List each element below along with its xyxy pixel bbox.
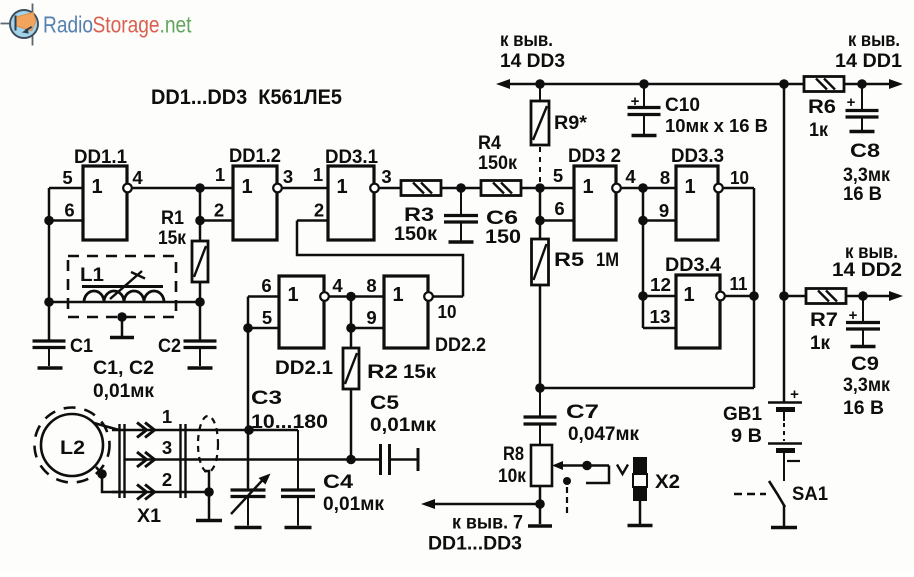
svg-text:12: 12 bbox=[650, 274, 671, 295]
svg-text:.net: .net bbox=[160, 12, 192, 38]
wire input column to coil node bbox=[247, 297, 250, 489]
svg-text:1: 1 bbox=[336, 176, 347, 198]
switch SA1 linkage bbox=[734, 493, 766, 495]
wire L2 bottom lead bbox=[96, 467, 102, 474]
node outputs join bbox=[749, 291, 759, 301]
bubble DD3.2 output bbox=[612, 184, 621, 193]
svg-text:150к: 150к bbox=[394, 223, 437, 245]
svg-text:16 В: 16 В bbox=[843, 397, 884, 419]
wire X2 bottom bbox=[639, 501, 642, 524]
capacitor C7 bbox=[539, 388, 541, 417]
wire pin2 DD3.1 bbox=[297, 219, 328, 222]
capacitor C6 bbox=[460, 188, 462, 216]
svg-text:R5: R5 bbox=[554, 249, 584, 271]
svg-text:R4: R4 bbox=[478, 132, 501, 154]
svg-text:10к: 10к bbox=[498, 465, 526, 487]
capacitor C8 bbox=[861, 84, 863, 111]
svg-text:C1, C2: C1, C2 bbox=[93, 357, 154, 379]
wire left column bbox=[48, 188, 51, 341]
svg-text:DD2.1: DD2.1 bbox=[275, 357, 333, 379]
svg-text:4: 4 bbox=[625, 166, 636, 187]
svg-text:4: 4 bbox=[132, 167, 143, 188]
svg-text:1: 1 bbox=[215, 164, 225, 185]
battery GB1 bbox=[768, 401, 802, 404]
wire pin6 DD1.1 bbox=[49, 219, 83, 222]
svg-text:10: 10 bbox=[730, 167, 749, 188]
wire L2 top lead bbox=[94, 423, 119, 430]
svg-text:Storage: Storage bbox=[93, 12, 160, 38]
wire L2 to row2 bbox=[102, 474, 125, 492]
svg-text:14 DD3: 14 DD3 bbox=[500, 51, 565, 72]
svg-text:2: 2 bbox=[214, 200, 224, 221]
inductor L1 adjust arrow bbox=[110, 271, 142, 299]
wire pin12 DD3.4 bbox=[643, 295, 676, 298]
jack break contact bbox=[617, 465, 628, 475]
wire DD1.2 out to DD3.1 in bbox=[282, 187, 328, 190]
svg-text:0,01мк: 0,01мк bbox=[370, 414, 436, 436]
node pin5 DD3.2 bbox=[535, 183, 545, 193]
svg-text:3: 3 bbox=[381, 166, 391, 187]
svg-text:DD3.4: DD3.4 bbox=[665, 254, 721, 276]
node L1 shield tap bbox=[117, 312, 127, 322]
wire row2 bbox=[112, 491, 209, 494]
wire feedback DD2.2 to DD3.1 pin2 bbox=[297, 221, 463, 297]
connector X1 left bbox=[118, 424, 120, 498]
svg-text:+: + bbox=[790, 386, 799, 403]
svg-text:150: 150 bbox=[485, 226, 521, 248]
wire R7 left bbox=[784, 295, 806, 298]
node pin12 bbox=[638, 291, 648, 301]
svg-text:9 В: 9 В bbox=[731, 425, 762, 447]
arrow to pin 14 DD3 bbox=[496, 79, 510, 89]
wire pin5-pin6 tie DD3.2 bbox=[539, 188, 542, 239]
wire pin2 DD1.2 bbox=[200, 219, 233, 222]
svg-text:C8: C8 bbox=[850, 140, 880, 162]
svg-text:SA1: SA1 bbox=[792, 483, 828, 505]
svg-text:C7: C7 bbox=[566, 401, 599, 423]
wire row3 bbox=[125, 458, 379, 461]
trimmer arrow C3 bbox=[231, 479, 264, 515]
bubble DD3.1 output bbox=[370, 184, 379, 193]
bubble DD2.2 output bbox=[424, 292, 433, 301]
node pin6 left bbox=[44, 216, 54, 226]
node DD1.1 output bbox=[195, 183, 205, 193]
node R8 bottom bbox=[535, 499, 545, 509]
wire pin5 DD2.1 bbox=[248, 327, 279, 330]
wire C2 lead bbox=[199, 302, 202, 341]
svg-text:R2: R2 bbox=[367, 361, 398, 383]
gate DD3.3 bbox=[676, 166, 718, 240]
resistor R7 bbox=[806, 289, 846, 304]
capacitor C4 bbox=[297, 430, 299, 490]
svg-text:X2: X2 bbox=[655, 471, 680, 493]
gate DD3.1 bbox=[328, 166, 374, 240]
resistor R4 bbox=[481, 181, 521, 196]
node pin6 DD3.2 bbox=[535, 216, 545, 226]
svg-text:10мк x 16 В: 10мк x 16 В bbox=[665, 116, 768, 136]
svg-text:1: 1 bbox=[392, 284, 403, 306]
svg-text:к выв.: к выв. bbox=[848, 30, 900, 51]
svg-text:DD1...DD3 К561ЛЕ5: DD1...DD3 К561ЛЕ5 bbox=[151, 86, 342, 109]
svg-text:1: 1 bbox=[287, 284, 298, 306]
node R7-C9 bbox=[858, 291, 868, 301]
svg-text:+: + bbox=[849, 307, 858, 324]
svg-text:15к: 15к bbox=[403, 361, 436, 383]
resistor R3 bbox=[401, 181, 441, 196]
inductor L1 core bbox=[82, 285, 163, 288]
svg-text:1: 1 bbox=[241, 176, 252, 198]
svg-text:R8: R8 bbox=[503, 443, 524, 465]
svg-text:1: 1 bbox=[162, 406, 172, 427]
wire R2 column upper bbox=[350, 297, 353, 349]
wire right output column bbox=[753, 188, 756, 388]
svg-text:3: 3 bbox=[162, 437, 172, 458]
contact arrows X1 pin1 bbox=[137, 423, 147, 438]
gate DD2.2 bbox=[384, 276, 428, 348]
wire DD3.3 out bbox=[723, 187, 754, 190]
node bus-R9 junction bbox=[535, 79, 545, 89]
svg-text:8: 8 bbox=[660, 167, 670, 188]
svg-text:1: 1 bbox=[683, 284, 694, 306]
svg-text:C2: C2 bbox=[158, 335, 181, 357]
switch SA1 bbox=[769, 481, 785, 507]
wire pin9 DD2.2 bbox=[351, 327, 384, 330]
svg-text:DD3.1: DD3.1 bbox=[325, 146, 378, 168]
wire pin9 DD3.3 bbox=[643, 219, 676, 222]
svg-text:10...180: 10...180 bbox=[251, 411, 328, 433]
node DD2.1 out bbox=[346, 292, 356, 302]
ground terminal SA1 bbox=[771, 526, 797, 530]
svg-text:DD2.2: DD2.2 bbox=[435, 334, 486, 356]
wire R8 bottom bbox=[539, 486, 542, 524]
node DD3.2 out bbox=[638, 183, 648, 193]
arrow to pin 14 DD2 bbox=[889, 291, 903, 301]
wire R3 to R4 bbox=[441, 187, 481, 190]
svg-text:C10: C10 bbox=[665, 94, 700, 116]
wire R4 to DD3.2 pin5 bbox=[521, 187, 574, 190]
shield L2 dashed bbox=[35, 408, 110, 483]
capacitor C10 bbox=[643, 84, 645, 108]
resistor R1 bbox=[192, 241, 208, 282]
svg-text:6: 6 bbox=[261, 275, 271, 296]
svg-text:0,01мк: 0,01мк bbox=[93, 380, 154, 402]
wiper arrow R8 bbox=[552, 461, 563, 470]
capacitor C3 trimmer bbox=[247, 430, 249, 490]
svg-text:L1: L1 bbox=[80, 264, 104, 286]
svg-text:1: 1 bbox=[582, 176, 593, 198]
node C6 tap bbox=[456, 183, 466, 193]
jack mech link bbox=[563, 477, 571, 485]
svg-text:Radio: Radio bbox=[43, 12, 93, 38]
node pin9 DD3.3 bbox=[638, 216, 648, 226]
svg-text:R9*: R9* bbox=[554, 112, 587, 134]
svg-text:3: 3 bbox=[283, 166, 293, 187]
node L1 left bbox=[44, 297, 54, 307]
svg-text:6: 6 bbox=[64, 200, 74, 221]
svg-text:1М: 1М bbox=[596, 249, 619, 271]
svg-text:к выв. 7: к выв. 7 bbox=[452, 513, 523, 534]
svg-text:15к: 15к bbox=[158, 227, 186, 249]
node C7 top bbox=[535, 383, 545, 393]
wire node down to R1 bbox=[199, 188, 202, 241]
svg-text:10: 10 bbox=[438, 301, 457, 322]
wire DD1.1 out to DD1.2 in bbox=[132, 187, 233, 190]
svg-text:1: 1 bbox=[684, 176, 695, 198]
wire battery column bbox=[783, 84, 786, 402]
inductor L2 search coil bbox=[41, 414, 103, 476]
node pin2 DD1.2 bbox=[195, 216, 205, 226]
ground terminal L1 tap bbox=[110, 336, 134, 340]
svg-text:+: + bbox=[631, 93, 640, 110]
svg-text:11: 11 bbox=[730, 273, 748, 294]
svg-text:9: 9 bbox=[366, 307, 376, 328]
power bus +9V wire bbox=[503, 83, 804, 86]
svg-text:C3: C3 bbox=[251, 387, 282, 409]
ground terminal R8 bbox=[528, 524, 552, 528]
svg-text:1к: 1к bbox=[810, 332, 830, 354]
wire SA1 bottom bbox=[783, 505, 786, 526]
svg-text:2: 2 bbox=[162, 469, 172, 490]
wire DD3.2 out to DD3.3 in bbox=[621, 187, 676, 190]
capacitor C1 bbox=[33, 339, 66, 342]
wire R1 bottom bbox=[199, 282, 202, 302]
svg-text:14 DD1: 14 DD1 bbox=[835, 51, 902, 72]
svg-text:DD1.1: DD1.1 bbox=[74, 146, 127, 168]
bubble DD3.3 output bbox=[714, 184, 723, 193]
contact arrows X1 pin3 bbox=[137, 452, 147, 467]
node row2 shield bbox=[204, 487, 214, 497]
svg-text:16 В: 16 В bbox=[843, 183, 882, 205]
gate DD3.4 bbox=[676, 275, 720, 348]
svg-text:1: 1 bbox=[313, 164, 323, 185]
svg-text:C9: C9 bbox=[851, 353, 879, 375]
svg-text:C4: C4 bbox=[323, 471, 353, 493]
ground terminal X2 bbox=[628, 524, 653, 528]
wire bottom signal bbox=[540, 387, 754, 390]
resistor R6 bbox=[804, 77, 844, 92]
wire DD2.2 out segment bbox=[433, 295, 463, 298]
wire DD2.1 out bbox=[329, 295, 384, 298]
inductor L1 screened bbox=[68, 256, 176, 317]
svg-text:0,01мк: 0,01мк bbox=[323, 493, 384, 515]
node bus-C10 junction bbox=[639, 79, 649, 89]
svg-text:8: 8 bbox=[366, 275, 376, 296]
svg-text:4: 4 bbox=[332, 275, 343, 296]
wire L1 tap bbox=[121, 317, 124, 336]
node wiper wire bbox=[582, 461, 592, 471]
capacitor C2 bbox=[184, 339, 217, 342]
connector X2 phone jack bbox=[633, 457, 647, 474]
cable shield ellipse bbox=[198, 416, 218, 472]
svg-text:1: 1 bbox=[91, 176, 102, 198]
svg-text:3,3мк: 3,3мк bbox=[843, 374, 890, 396]
svg-text:150к: 150к bbox=[478, 152, 517, 174]
svg-text:GB1: GB1 bbox=[723, 403, 762, 425]
wire R2 bottom bbox=[350, 389, 353, 460]
svg-text:X1: X1 bbox=[137, 505, 161, 527]
svg-text:L2: L2 bbox=[60, 437, 85, 459]
capacitor C9 bbox=[862, 296, 864, 323]
label GB1 minus bbox=[787, 460, 800, 462]
wire vertical DD3.2-out down bbox=[642, 188, 645, 328]
wire pin6 DD2.1 bbox=[248, 295, 279, 298]
site logo RadioStorage.net bbox=[1, 4, 192, 46]
capacitor C5 bbox=[379, 444, 382, 475]
wire row2 down bbox=[208, 492, 211, 519]
wire pin13 DD3.4 bbox=[643, 327, 676, 330]
gate DD1.2 bbox=[233, 166, 277, 240]
gate DD2.1 bbox=[279, 276, 324, 348]
gate DD1.1 (U: K561LE5 el.1) bbox=[83, 166, 127, 240]
inductor L1 winding bbox=[84, 291, 164, 302]
wire R7 right bbox=[846, 295, 899, 298]
svg-text:5: 5 bbox=[553, 165, 563, 186]
node pin9 DD2.2 bbox=[346, 323, 356, 333]
wire row1 bbox=[112, 429, 298, 432]
terminal C5 right bbox=[417, 448, 420, 471]
wire DD3.4 out bbox=[725, 295, 754, 298]
arrow to pin 14 DD1 bbox=[889, 79, 903, 89]
node R1 bottom bbox=[195, 297, 205, 307]
wire DD3.1 out to R3 bbox=[379, 187, 401, 190]
node row1 C3 bbox=[244, 425, 254, 435]
bubble DD1.1 output bbox=[123, 184, 132, 193]
node R7 tap bbox=[779, 291, 789, 301]
svg-text:DD3 2: DD3 2 bbox=[568, 145, 621, 167]
resistor R5 bbox=[532, 239, 549, 285]
svg-text:6: 6 bbox=[554, 198, 564, 219]
ground terminal C4 bbox=[285, 526, 312, 530]
bubble DD1.2 output bbox=[273, 184, 282, 193]
node L2 shield join bbox=[97, 469, 107, 479]
connector X1 right bbox=[179, 424, 181, 498]
node R6-C8 junction bbox=[857, 79, 867, 89]
svg-text:C1: C1 bbox=[70, 335, 93, 357]
svg-text:5: 5 bbox=[262, 307, 272, 328]
svg-text:R7: R7 bbox=[810, 309, 838, 331]
node bus-right junction bbox=[779, 79, 789, 89]
svg-text:DD1...DD3: DD1...DD3 bbox=[428, 533, 522, 555]
wire shield lead bbox=[204, 471, 209, 490]
svg-text:5: 5 bbox=[62, 167, 72, 188]
gate DD3.2 bbox=[574, 166, 616, 240]
node pin5 input bbox=[243, 323, 253, 333]
bubble DD3.4 output bbox=[716, 292, 725, 301]
node row3 R2 bbox=[346, 455, 356, 465]
wire pin6 DD3.2 bbox=[540, 219, 574, 222]
resistor R2 bbox=[343, 348, 359, 389]
svg-text:+: + bbox=[847, 94, 856, 111]
svg-text:2: 2 bbox=[314, 200, 324, 221]
contact arrows X1 pin2 bbox=[137, 485, 147, 500]
wire jack contact bbox=[586, 466, 609, 484]
svg-text:R1: R1 bbox=[161, 207, 184, 229]
svg-text:1к: 1к bbox=[809, 119, 828, 141]
svg-text:13: 13 bbox=[650, 306, 671, 327]
svg-text:R6: R6 bbox=[808, 96, 836, 118]
wire pin5 DD1.1 bbox=[49, 187, 83, 190]
svg-text:14 DD2: 14 DD2 bbox=[832, 260, 902, 281]
svg-text:C5: C5 bbox=[370, 392, 399, 414]
potentiometer R8 bbox=[531, 445, 552, 486]
svg-text:0,047мк: 0,047мк bbox=[568, 423, 639, 445]
wire L1 row bbox=[49, 301, 200, 304]
wire R5 bottom to C7 node bbox=[539, 285, 542, 388]
svg-text:DD1.2: DD1.2 bbox=[229, 145, 281, 167]
svg-text:к выв.: к выв. bbox=[500, 30, 553, 51]
ground terminal row2 bbox=[196, 519, 222, 523]
svg-text:DD3.3: DD3.3 bbox=[671, 145, 724, 167]
ground terminal C3 bbox=[235, 526, 262, 530]
wire to pin7 arrow bbox=[425, 503, 540, 506]
resistor R9 (dashed optional) bbox=[539, 84, 541, 101]
bubble DD2.1 output bbox=[320, 292, 329, 301]
arrow to pin 7 bbox=[421, 499, 435, 509]
svg-text:9: 9 bbox=[659, 200, 669, 221]
